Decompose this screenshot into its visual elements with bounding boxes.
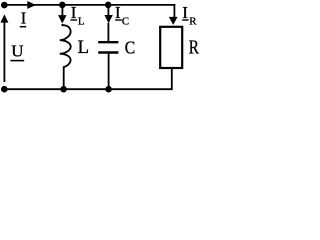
current arrow I_C xyxy=(104,15,112,23)
current arrow I on top rail xyxy=(27,1,36,9)
wire C branch top xyxy=(107,5,109,18)
current arrow I_L xyxy=(58,15,66,24)
inductor L coil xyxy=(60,24,71,68)
node top L xyxy=(59,2,66,9)
svg-text:I: I xyxy=(182,3,188,22)
node bottom L xyxy=(60,86,67,93)
svg-text:L: L xyxy=(78,37,90,58)
svg-text:I: I xyxy=(21,8,27,27)
capacitor C top plate xyxy=(98,41,118,43)
svg-text:I: I xyxy=(115,3,121,22)
wire C branch bottom xyxy=(108,53,110,89)
resistor R box xyxy=(160,27,182,68)
node bottom-left xyxy=(1,86,8,93)
wire L branch top xyxy=(61,5,63,18)
wire L branch bottom xyxy=(63,67,65,89)
svg-text:U: U xyxy=(11,42,23,61)
svg-text:L: L xyxy=(78,15,85,27)
capacitor C bottom plate xyxy=(98,51,118,53)
current arrow I_R xyxy=(169,17,178,25)
svg-text:I: I xyxy=(71,3,77,22)
svg-text:R: R xyxy=(189,36,200,58)
svg-text:C: C xyxy=(125,38,135,58)
svg-text:R: R xyxy=(189,15,197,27)
wire C to top plate xyxy=(107,23,109,42)
wire R branch bottom xyxy=(171,68,173,89)
node top-left xyxy=(1,2,8,9)
wire top rail xyxy=(4,4,175,6)
voltage arrow U (source) xyxy=(3,21,5,82)
wire bottom rail xyxy=(4,88,173,90)
wire top rail corner down to R xyxy=(173,4,175,19)
node top C xyxy=(105,2,112,9)
node bottom C xyxy=(105,86,112,93)
svg-text:C: C xyxy=(122,15,129,27)
